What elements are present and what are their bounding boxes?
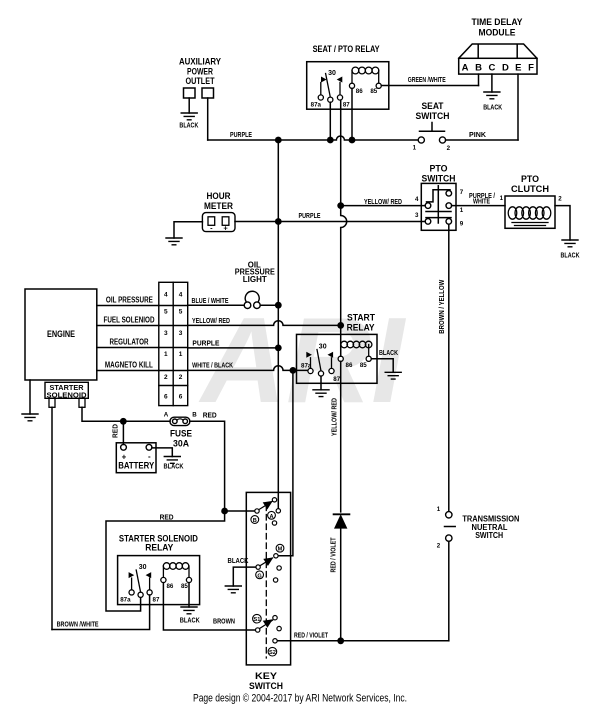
start relay box xyxy=(297,334,378,383)
wire blue/white row xyxy=(188,304,245,306)
transmission neutral switch terminal 2 xyxy=(446,535,452,541)
starter solenoid box xyxy=(45,382,88,399)
svg-text:F: F xyxy=(528,63,534,74)
wire starter solenoid relay 85 to ground xyxy=(188,583,190,607)
seat/pto relay terminal 87 xyxy=(337,95,342,100)
svg-text:TIME DELAY: TIME DELAY xyxy=(472,17,523,27)
svg-text:PURPLE: PURPLE xyxy=(230,130,252,139)
key switch contact right of S1 xyxy=(277,626,281,630)
svg-text:OUTLET: OUTLET xyxy=(186,76,215,86)
wire magneto vertical to key switch M xyxy=(278,370,293,555)
wire white/black row with hop xyxy=(188,366,309,371)
node junction white/black magneto xyxy=(290,367,297,374)
node junction bus/relay-86 xyxy=(349,137,356,144)
svg-text:1: 1 xyxy=(437,506,441,513)
svg-text:RED: RED xyxy=(160,512,175,521)
starter solenoid relay box xyxy=(118,556,200,605)
wire red down-left to starter solenoid relay 30 xyxy=(106,511,225,611)
auxiliary power outlet connector pins xyxy=(184,88,214,98)
svg-text:BROWN: BROWN xyxy=(213,617,235,626)
time delay module title xyxy=(472,17,523,38)
svg-text:RELAY: RELAY xyxy=(145,543,173,553)
svg-text:START: START xyxy=(347,313,375,323)
wire purple feed vertical x278 xyxy=(277,140,279,509)
key switch contact below G xyxy=(273,578,277,582)
svg-text:PTO: PTO xyxy=(430,164,448,174)
wire red/violet horizontal xyxy=(277,640,449,642)
node junction yellow/red start relay xyxy=(337,322,344,329)
svg-text:POWER: POWER xyxy=(187,67,213,77)
pto switch terminal 9 xyxy=(446,219,452,225)
svg-text:4: 4 xyxy=(415,196,419,203)
key switch terminal S1 xyxy=(256,628,260,632)
key switch contact S1 top xyxy=(273,616,277,620)
start relay terminal 85 xyxy=(366,356,371,361)
seat/pto relay terminal 86 xyxy=(349,83,354,88)
wire vertical relay-87 hop over purple row xyxy=(341,206,347,326)
svg-text:2: 2 xyxy=(558,195,562,202)
time delay module body xyxy=(459,44,537,74)
svg-text:ENGINE: ENGINE xyxy=(47,329,75,340)
ground start relay xyxy=(385,372,401,379)
seat/pto relay terminal 85 xyxy=(376,83,381,88)
svg-text:86: 86 xyxy=(356,88,363,95)
ground hour meter xyxy=(166,238,182,245)
pto clutch coil xyxy=(508,207,551,226)
wire module pin E down to pink xyxy=(517,74,519,140)
pto switch terminal 4 xyxy=(425,203,431,209)
svg-text:1: 1 xyxy=(413,145,417,152)
svg-text:86: 86 xyxy=(346,362,353,369)
node junction blue-white/purple vertical xyxy=(275,302,282,309)
svg-text:G: G xyxy=(257,573,261,579)
start relay contact 87 arrow xyxy=(328,352,334,369)
wire aux outlet right pin down to purple bus xyxy=(207,98,209,140)
svg-text:WHITE: WHITE xyxy=(473,199,490,206)
seat/pto relay U1 title xyxy=(313,44,380,54)
svg-text:85: 85 xyxy=(181,583,188,590)
key switch label ring S1 xyxy=(253,614,262,623)
wire relay 86 terminal down to bus xyxy=(351,88,353,140)
svg-text:YELLOW/ RED: YELLOW/ RED xyxy=(192,316,230,325)
wire hour meter to ground xyxy=(174,222,202,238)
svg-text:LIGHT: LIGHT xyxy=(243,275,267,284)
svg-text:30: 30 xyxy=(328,70,336,77)
start relay terminal 86 xyxy=(338,356,343,361)
svg-text:87: 87 xyxy=(153,597,160,604)
wire yellow/red relay-87 junction to pto switch 4 xyxy=(341,205,426,207)
start relay contact 87a arrow xyxy=(306,352,312,369)
svg-text:BLACK: BLACK xyxy=(483,103,502,112)
svg-text:RED: RED xyxy=(113,424,120,438)
svg-text:A: A xyxy=(462,63,469,74)
svg-text:85: 85 xyxy=(370,88,377,95)
key switch title xyxy=(249,671,283,691)
svg-text:30A: 30A xyxy=(173,439,189,449)
svg-text:RELAY: RELAY xyxy=(347,323,375,333)
seat switch title xyxy=(416,101,450,121)
svg-text:86: 86 xyxy=(166,583,173,590)
wire start relay 86 to yellow/red vertical xyxy=(340,325,342,512)
wire module pin C to ground xyxy=(491,74,493,92)
wire relay 85 to green/white xyxy=(381,85,478,87)
ground battery xyxy=(164,457,180,464)
svg-text:4: 4 xyxy=(164,292,168,299)
svg-text:87a: 87a xyxy=(120,597,131,604)
wire relay 30 terminal down to bus xyxy=(329,102,331,140)
starter solenoid relay armature xyxy=(136,570,140,592)
svg-text:30: 30 xyxy=(139,564,147,571)
svg-text:METER: METER xyxy=(204,201,233,211)
svg-text:SWITCH: SWITCH xyxy=(475,531,503,540)
wire engine regulator stub xyxy=(97,347,159,349)
wire battery - to ground xyxy=(152,448,172,457)
start relay terminal 30 common xyxy=(318,371,323,376)
wire purple row xyxy=(188,347,279,349)
key switch label ring B xyxy=(251,516,259,524)
wire diode to red/violet junction xyxy=(340,529,342,641)
starter solenoid relay terminal 87a xyxy=(129,590,134,595)
key switch terminal G xyxy=(256,565,260,569)
svg-text:PINK: PINK xyxy=(469,130,487,139)
wire pto clutch 2 to ground xyxy=(555,206,570,240)
starter solenoid relay contact 87 arrow xyxy=(146,572,152,590)
wire transmission switch 2 down to red/violet xyxy=(448,541,450,640)
pto switch terminal 7 xyxy=(446,191,452,197)
battery polarity marks xyxy=(122,452,151,462)
seat switch terminal 1 xyxy=(418,137,424,143)
svg-text:MODULE: MODULE xyxy=(479,28,516,38)
svg-text:D: D xyxy=(502,63,509,74)
ground start relay 30 xyxy=(313,390,329,397)
ground aux outlet xyxy=(181,113,197,120)
svg-text:B: B xyxy=(253,518,257,524)
seat/pto relay contact 87a arrow xyxy=(321,77,327,95)
svg-text:5: 5 xyxy=(164,309,168,316)
ground pto clutch xyxy=(562,240,578,247)
wire relay 87 down long vertical yellow/red xyxy=(340,100,342,206)
svg-text:WHITE / BLACK: WHITE / BLACK xyxy=(192,360,233,369)
svg-text:2: 2 xyxy=(447,145,451,152)
battery terminal - xyxy=(146,444,152,450)
starter solenoid relay terminal 30 common xyxy=(138,592,143,597)
engine connector pin numbers xyxy=(164,292,183,401)
svg-text:SWITCH: SWITCH xyxy=(416,111,450,121)
svg-text:3: 3 xyxy=(179,330,183,337)
ground time delay module xyxy=(484,92,500,99)
node junction bus/relay-30 xyxy=(327,137,334,144)
seat/pto relay armature xyxy=(326,74,331,98)
svg-text:7: 7 xyxy=(460,189,464,196)
svg-text:87a: 87a xyxy=(301,363,312,370)
fuse title xyxy=(170,429,192,449)
node junction bus/purple feed xyxy=(275,137,282,144)
pto switch box xyxy=(421,183,456,230)
engine box xyxy=(25,289,97,380)
start relay coil xyxy=(341,341,372,356)
svg-text:SWITCH: SWITCH xyxy=(249,681,283,691)
wire starter solenoid left terminal brown/white down xyxy=(51,407,53,629)
wire aux outlet left pin to ground xyxy=(188,98,190,113)
svg-text:REGULATOR: REGULATOR xyxy=(110,338,149,347)
svg-text:1: 1 xyxy=(179,351,183,358)
node junction purple/hour meter xyxy=(275,218,282,225)
hour meter terminals xyxy=(208,217,229,226)
wire starter solenoid right terminal to fuse xyxy=(82,407,170,421)
key switch terminal A lead xyxy=(276,509,280,513)
seat/pto relay coil xyxy=(352,67,379,83)
wire start relay 85 to ground xyxy=(371,359,393,373)
wire red junction to battery + xyxy=(122,421,124,444)
svg-text:FUSE: FUSE xyxy=(170,429,192,439)
svg-text:KEY: KEY xyxy=(255,671,277,681)
pto clutch box xyxy=(505,196,555,228)
wire purple bus y140 with hop over relay-87 wire xyxy=(208,136,419,140)
svg-text:CLUTCH: CLUTCH xyxy=(511,184,549,194)
svg-text:MAGNETO KILL: MAGNETO KILL xyxy=(105,361,153,370)
wire brown/yellow pto-9 to transmission switch xyxy=(448,224,450,511)
ground engine xyxy=(22,414,38,421)
transmission neutral switch title xyxy=(462,514,519,540)
hour meter title xyxy=(204,191,233,211)
wire key switch G to ground black xyxy=(233,567,256,586)
svg-text:PURPLE: PURPLE xyxy=(299,211,321,220)
key switch contact right of G xyxy=(277,566,281,570)
seat/pto relay box xyxy=(307,62,389,109)
hour meter body xyxy=(202,213,235,232)
svg-text:YELLOW/ RED: YELLOW/ RED xyxy=(332,398,339,436)
battery xyxy=(116,443,156,473)
seat/pto relay terminal 30 common xyxy=(328,97,333,102)
key switch terminal M xyxy=(274,554,278,558)
svg-text:E: E xyxy=(515,63,521,74)
pto clutch title xyxy=(511,174,549,194)
svg-text:RED / VIOLET: RED / VIOLET xyxy=(294,631,328,640)
key switch G arm arrow xyxy=(260,557,274,566)
wire purple hour meter to pto switch 3 xyxy=(235,221,425,223)
svg-text:BLACK: BLACK xyxy=(179,121,198,130)
svg-text:SWITCH: SWITCH xyxy=(422,174,456,184)
key switch contact below A xyxy=(272,521,276,525)
wire yellow/red row with hop xyxy=(188,321,341,326)
svg-text:C: C xyxy=(488,63,495,74)
start relay terminal 87a xyxy=(308,368,313,373)
node junction yellow/red xyxy=(337,202,344,209)
seat switch actuator bar xyxy=(420,123,445,132)
engine connector block xyxy=(159,282,188,405)
svg-text:2: 2 xyxy=(179,374,183,381)
svg-text:30: 30 xyxy=(319,344,327,351)
svg-text:S1: S1 xyxy=(253,617,260,623)
wire engine magneto kill stub xyxy=(97,370,159,372)
svg-text:B: B xyxy=(192,411,197,418)
wire starter solenoid relay 87 to brown/white xyxy=(52,595,150,630)
key switch terminal S2 xyxy=(273,639,277,643)
svg-text:1: 1 xyxy=(500,195,504,202)
start relay terminal 87 xyxy=(329,368,334,373)
diode D1 xyxy=(334,514,350,528)
transmission neutral switch terminal 1 xyxy=(446,512,452,518)
node junction purple row xyxy=(275,345,282,352)
svg-text:RED / VIOLET: RED / VIOLET xyxy=(331,537,338,573)
wire red junction to key switch B xyxy=(225,510,255,512)
wire engine to ground xyxy=(29,380,31,414)
start relay armature xyxy=(317,350,321,371)
svg-text:M: M xyxy=(278,547,283,553)
key switch contact A top xyxy=(272,498,276,502)
svg-text:BLUE / WHITE: BLUE / WHITE xyxy=(192,296,229,305)
svg-text:-: - xyxy=(148,452,151,461)
node junction red battery xyxy=(120,418,127,425)
svg-text:BLACK: BLACK xyxy=(180,615,200,624)
starter solenoid relay terminal 86 xyxy=(161,577,166,582)
svg-text:BATTERY: BATTERY xyxy=(118,461,155,472)
svg-text:PTO: PTO xyxy=(521,174,539,184)
key switch S1 arm arrow xyxy=(260,619,273,628)
svg-text:3: 3 xyxy=(164,330,168,337)
svg-text:BLACK: BLACK xyxy=(561,251,580,260)
node junction red key switch B xyxy=(221,508,228,515)
pto switch title xyxy=(422,164,456,184)
node junction red/violet xyxy=(337,637,344,644)
wire purple/white pto switch 1 to clutch xyxy=(452,205,505,207)
svg-text:A: A xyxy=(269,514,273,520)
seat switch terminal 2 xyxy=(439,137,445,143)
label PURPLE / WHITE xyxy=(469,193,495,206)
wire engine oil pressure stub xyxy=(97,305,159,307)
svg-text:FUEL SOLENIOD: FUEL SOLENIOD xyxy=(104,316,155,325)
svg-text:RED: RED xyxy=(203,411,218,420)
svg-text:5: 5 xyxy=(179,309,183,316)
key switch terminal B xyxy=(255,509,259,513)
ground starter solenoid relay xyxy=(181,607,197,614)
wire fuse B to red vertical xyxy=(190,421,225,511)
svg-text:B: B xyxy=(475,63,482,74)
svg-text:PURPLE: PURPLE xyxy=(192,338,219,347)
svg-text:AUXILIARY: AUXILIARY xyxy=(179,57,221,67)
svg-text:YELLOW/ RED: YELLOW/ RED xyxy=(364,199,402,206)
svg-text:2: 2 xyxy=(164,374,168,381)
svg-text:87: 87 xyxy=(343,102,350,109)
hour meter polarity marks xyxy=(210,223,228,232)
svg-text:SEAT / PTO RELAY: SEAT / PTO RELAY xyxy=(313,44,380,54)
pto switch terminal 3 xyxy=(425,219,431,225)
svg-text:6: 6 xyxy=(179,394,183,401)
svg-text:3: 3 xyxy=(415,212,419,219)
pto switch internal contacts xyxy=(426,186,451,223)
svg-text:+: + xyxy=(122,452,127,461)
svg-text:87: 87 xyxy=(333,376,340,383)
starter solenoid relay title xyxy=(119,533,198,552)
key switch box xyxy=(246,492,290,665)
key switch label ring A xyxy=(268,511,276,519)
pto switch terminal 1 xyxy=(446,203,452,209)
starter solenoid relay coil xyxy=(163,563,189,578)
seat/pto relay contact 87 arrow xyxy=(337,77,343,95)
svg-text:S2: S2 xyxy=(269,650,276,656)
starter solenoid terminals xyxy=(49,398,85,407)
svg-text:87a: 87a xyxy=(311,102,322,109)
svg-text:1: 1 xyxy=(460,207,464,214)
starter solenoid relay terminal 85 xyxy=(186,577,191,582)
starter solenoid relay terminal 87 xyxy=(147,590,152,595)
svg-text:BROWN /WHITE: BROWN /WHITE xyxy=(57,620,99,629)
key switch label ring G xyxy=(256,571,264,579)
svg-text:OIL PRESSURE: OIL PRESSURE xyxy=(106,296,154,305)
key switch rotation dashed line xyxy=(265,505,267,658)
svg-text:1: 1 xyxy=(164,351,168,358)
key switch B arm arrow xyxy=(259,501,273,510)
wire blue/white lamp to purple vertical xyxy=(260,304,275,306)
fuse F1 xyxy=(170,417,190,425)
transmission neutral switch bar xyxy=(445,526,456,528)
watermark ARI logo xyxy=(198,292,406,428)
oil pressure light lamp xyxy=(244,291,260,308)
svg-text:A: A xyxy=(164,411,169,418)
svg-text:SEAT: SEAT xyxy=(422,101,444,111)
wire start relay 30 to ground xyxy=(320,376,322,390)
battery terminal + xyxy=(121,444,127,450)
seat/pto relay terminal 87a xyxy=(318,95,323,100)
svg-text:BLACK: BLACK xyxy=(228,556,249,565)
svg-text:85: 85 xyxy=(360,362,367,369)
svg-text:2: 2 xyxy=(437,543,441,550)
svg-text:4: 4 xyxy=(179,292,183,299)
auxiliary power outlet label xyxy=(179,57,221,87)
svg-text:6: 6 xyxy=(164,394,168,401)
wire module pin B to green/white xyxy=(478,74,480,85)
svg-text:+: + xyxy=(223,223,228,232)
svg-text:HOUR: HOUR xyxy=(207,191,231,201)
time delay module pin letters A B C D E F xyxy=(462,63,535,74)
svg-text:9: 9 xyxy=(460,221,464,228)
wire pink seat switch to module E xyxy=(446,139,518,141)
svg-text:GREEN /WHITE: GREEN /WHITE xyxy=(408,75,446,84)
svg-text:Page design © 2004-2017 by ARI: Page design © 2004-2017 by ARI Network S… xyxy=(193,693,407,705)
ground key switch G xyxy=(225,586,241,593)
wire starter solenoid relay 86 to key switch brown xyxy=(163,583,255,630)
starter solenoid relay contact 87a arrow xyxy=(129,572,135,590)
key switch label ring S2 xyxy=(268,647,277,656)
wire engine fuel solenoid stub xyxy=(97,325,159,327)
oil pressure light title xyxy=(235,260,276,284)
key switch label ring M xyxy=(276,544,284,552)
svg-text:BLACK: BLACK xyxy=(379,348,398,357)
start relay title xyxy=(347,313,376,333)
svg-text:BLACK: BLACK xyxy=(164,461,184,470)
svg-text:BROWN / YELLOW: BROWN / YELLOW xyxy=(439,279,446,333)
